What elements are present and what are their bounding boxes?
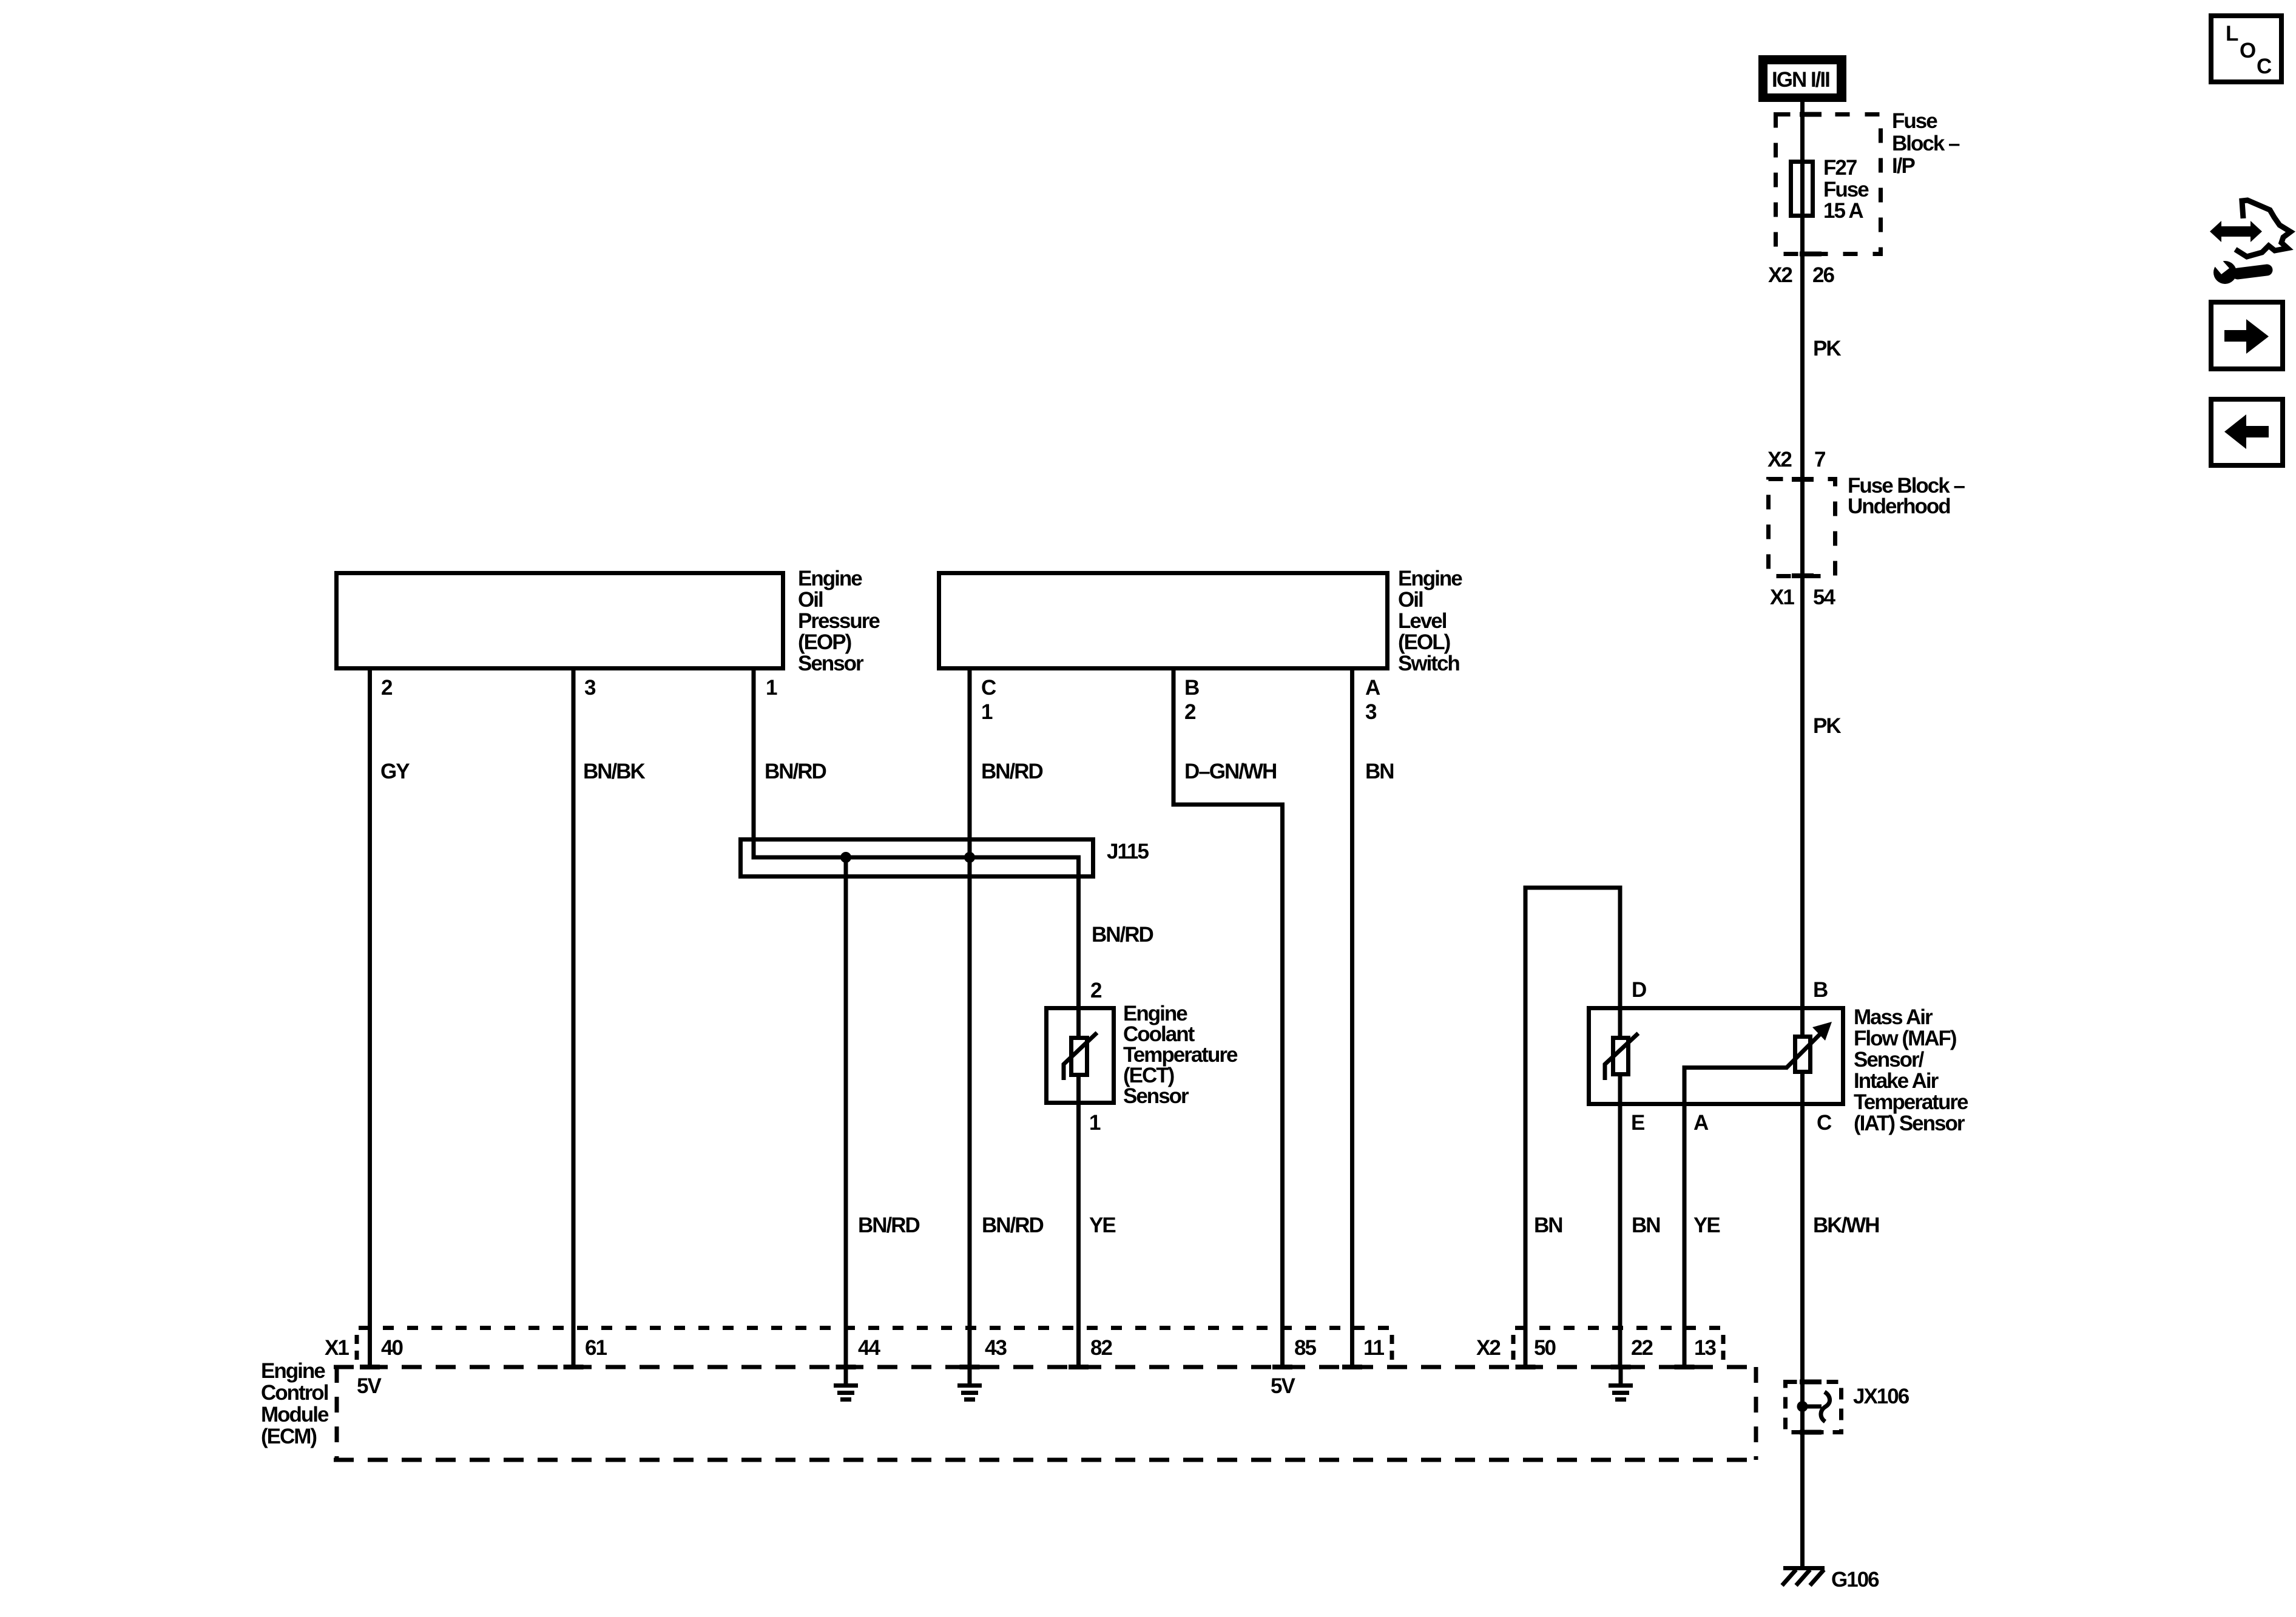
svg-text:54: 54 — [1813, 586, 1835, 609]
svg-text:(IAT) Sensor: (IAT) Sensor — [1854, 1112, 1965, 1135]
svg-text:50: 50 — [1534, 1336, 1556, 1360]
svg-text:(EOL): (EOL) — [1398, 630, 1450, 654]
svg-text:3: 3 — [584, 676, 596, 700]
svg-text:YE: YE — [1693, 1214, 1720, 1237]
svg-text:BK/WH: BK/WH — [1813, 1214, 1879, 1237]
label Engine Coolant Temperature (ECT) Sensor — [1123, 1002, 1238, 1108]
pin B 2 — [1184, 676, 1199, 724]
wire ECT pin 1 YE to ECM 82 — [1076, 1076, 1081, 1367]
variable resistor symbol MAF — [1786, 1022, 1832, 1072]
wire EOL pin C BN/RD to ECM 43 — [968, 669, 972, 1367]
svg-text:PK: PK — [1813, 714, 1841, 738]
splice JX106 dashed box — [1786, 1380, 1842, 1435]
svg-text:BN/RD: BN/RD — [765, 760, 826, 783]
svg-text:Intake Air: Intake Air — [1854, 1069, 1939, 1093]
svg-text:B: B — [1813, 978, 1828, 1002]
svg-text:Mass Air: Mass Air — [1854, 1005, 1933, 1029]
svg-text:X1: X1 — [325, 1336, 349, 1360]
wire EOL pin A BN to ECM 11 — [1350, 669, 1354, 1367]
pin C 1 — [981, 676, 996, 724]
node X2 7 — [1768, 448, 1825, 471]
svg-text:BN/RD: BN/RD — [981, 760, 1043, 783]
ECM connector X1 dotted row — [359, 1326, 1391, 1330]
svg-text:1: 1 — [766, 676, 777, 700]
svg-text:X1: X1 — [1770, 586, 1794, 609]
ground at ECM 44 — [834, 1369, 858, 1402]
svg-text:JX106: JX106 — [1853, 1385, 1909, 1408]
svg-text:J115: J115 — [1107, 840, 1149, 863]
svg-text:Temperature: Temperature — [1854, 1090, 1968, 1114]
svg-text:Underhood: Underhood — [1848, 495, 1950, 518]
svg-text:E: E — [1631, 1111, 1644, 1135]
label Fuse Block - Underhood — [1848, 474, 1965, 518]
svg-text:Engine: Engine — [1398, 567, 1462, 590]
svg-text:1: 1 — [1089, 1111, 1101, 1135]
svg-text:IGN I/II: IGN I/II — [1772, 68, 1829, 92]
svg-text:O: O — [2240, 39, 2255, 62]
svg-text:2: 2 — [381, 676, 393, 700]
svg-text:YE: YE — [1089, 1214, 1115, 1237]
node X1 54 — [1770, 586, 1835, 609]
svg-text:(EOP): (EOP) — [798, 630, 851, 654]
svg-text:Engine: Engine — [261, 1359, 325, 1383]
svg-text:44: 44 — [858, 1336, 880, 1360]
wire ECM 50 BN to MAF pin D — [1525, 888, 1620, 1367]
label Engine Oil Level (EOL) Switch — [1398, 567, 1462, 675]
label Engine Control Module (ECM) — [261, 1359, 329, 1448]
svg-text:L: L — [2226, 22, 2238, 46]
svg-text:BN/BK: BN/BK — [583, 760, 646, 783]
icon wrench with double arrow — [2210, 200, 2291, 284]
ECM pin terminal bars — [360, 1365, 1695, 1369]
ground at ECM 43 — [957, 1369, 982, 1402]
pin A 3 — [1365, 676, 1380, 724]
svg-text:BN/RD: BN/RD — [858, 1214, 920, 1237]
fuse block I/P dashed box — [1776, 112, 1881, 257]
svg-text:Sensor: Sensor — [798, 652, 864, 675]
svg-text:Sensor/: Sensor/ — [1854, 1048, 1925, 1072]
svg-text:Pressure: Pressure — [798, 609, 880, 633]
ground at ECM 22 — [1609, 1369, 1633, 1402]
splice clip symbol JX106 — [1803, 1405, 1822, 1409]
wire from J115 to ECM 44 BN/RD — [844, 857, 848, 1367]
svg-text:Level: Level — [1398, 609, 1447, 633]
splice J115 box — [741, 840, 1093, 877]
svg-text:BN/RD: BN/RD — [982, 1214, 1044, 1237]
svg-text:85: 85 — [1294, 1336, 1316, 1360]
svg-text:A: A — [1693, 1111, 1709, 1135]
svg-text:C: C — [2257, 55, 2272, 78]
svg-text:Oil: Oil — [1398, 588, 1423, 612]
wire EOP pin 3 BN/BK to ECM 61 — [572, 669, 576, 1367]
wire IAT pin E BN to ECM 22 — [1618, 1076, 1622, 1367]
svg-text:B: B — [1184, 676, 1199, 700]
label Engine Oil Pressure (EOP) Sensor — [798, 567, 880, 675]
svg-text:X2: X2 — [1768, 448, 1792, 471]
svg-text:26: 26 — [1812, 263, 1834, 287]
connector cap X2 left — [1511, 1335, 1516, 1360]
svg-text:C: C — [981, 676, 996, 700]
switch EOL box — [939, 573, 1388, 669]
svg-text:PK: PK — [1813, 337, 1841, 360]
svg-text:G106: G106 — [1831, 1568, 1879, 1592]
svg-text:Oil: Oil — [798, 588, 823, 612]
connector cap X1 right — [1390, 1335, 1394, 1360]
sensor MAF/IAT box — [1589, 1008, 1843, 1104]
sensor EOP box — [337, 573, 783, 669]
svg-text:11: 11 — [1363, 1336, 1385, 1360]
svg-text:A: A — [1365, 676, 1380, 700]
thermistor symbol IAT — [1605, 1033, 1638, 1080]
svg-text:2: 2 — [1090, 979, 1102, 1002]
svg-text:5V: 5V — [357, 1374, 382, 1398]
wire PK from IGN I/II to MAF pin B — [1800, 102, 1805, 1035]
svg-text:Switch: Switch — [1398, 652, 1459, 675]
svg-text:40: 40 — [381, 1336, 403, 1360]
junction dot on wire C — [964, 852, 975, 863]
ground G106 chassis symbol — [1782, 1566, 1825, 1585]
svg-text:2: 2 — [1184, 700, 1196, 724]
svg-text:Sensor: Sensor — [1123, 1084, 1189, 1108]
wire EOL pin B D-GN/WH to ECM 85 — [1173, 669, 1283, 1367]
label Mass Air Flow (MAF) Sensor / Intake Air Temperature (IAT) Sensor — [1854, 1005, 1968, 1135]
label F27 Fuse 15 A — [1823, 156, 1869, 223]
label Fuse Block - I/P — [1892, 109, 1960, 178]
wire EOP pin 2 GY to ECM 40 — [368, 669, 372, 1367]
ECM dashed box — [334, 1367, 1756, 1460]
svg-text:X2: X2 — [1476, 1336, 1501, 1360]
icon LOC box — [2211, 16, 2281, 82]
connector cap X1 left — [355, 1335, 359, 1360]
svg-text:BN: BN — [1534, 1214, 1562, 1237]
svg-text:D–GN/WH: D–GN/WH — [1184, 760, 1276, 783]
svg-text:61: 61 — [585, 1336, 607, 1360]
svg-text:Module: Module — [261, 1403, 329, 1426]
svg-text:7: 7 — [1814, 448, 1825, 471]
thermistor symbol ECT — [1064, 1033, 1097, 1080]
node X2 26 — [1768, 263, 1834, 287]
svg-text:Flow (MAF): Flow (MAF) — [1854, 1027, 1956, 1050]
svg-text:Fuse: Fuse — [1823, 178, 1869, 201]
svg-text:3: 3 — [1365, 700, 1377, 724]
ECM connector X2 dotted row — [1515, 1326, 1722, 1330]
wire MAF pin C BK/WH to G106 — [1800, 1072, 1805, 1566]
svg-text:C: C — [1817, 1111, 1832, 1135]
connector cap X2 right — [1721, 1335, 1726, 1360]
svg-text:D: D — [1632, 978, 1646, 1002]
svg-text:BN: BN — [1365, 760, 1394, 783]
junction dot JX106 — [1797, 1401, 1808, 1412]
svg-text:82: 82 — [1090, 1336, 1112, 1360]
svg-text:5V: 5V — [1271, 1374, 1295, 1398]
fuse F27 15A — [1791, 162, 1813, 216]
svg-text:I/P: I/P — [1892, 154, 1915, 178]
icon arrow left box — [2211, 399, 2283, 465]
wire EOP pin 1 BN/RD to splice J115 and on to ECT pin 2 — [754, 669, 1079, 1036]
svg-text:Control: Control — [261, 1381, 328, 1405]
svg-text:43: 43 — [985, 1336, 1007, 1360]
junction dot on wire 44 — [840, 852, 851, 863]
svg-text:22: 22 — [1631, 1336, 1653, 1360]
svg-text:Engine: Engine — [798, 567, 862, 590]
wire MAF pin A internal — [1684, 1068, 1787, 1368]
svg-text:13: 13 — [1694, 1336, 1716, 1360]
svg-text:X2: X2 — [1768, 263, 1792, 287]
power symbol IGN I/II — [1758, 55, 1846, 102]
svg-text:BN/RD: BN/RD — [1092, 923, 1153, 947]
svg-text:1: 1 — [981, 700, 993, 724]
svg-text:Block –: Block – — [1892, 132, 1960, 155]
svg-text:GY: GY — [380, 760, 410, 783]
svg-text:BN: BN — [1632, 1214, 1660, 1237]
icon arrow right box — [2211, 302, 2283, 369]
svg-text:(ECM): (ECM) — [261, 1425, 316, 1448]
svg-text:15 A: 15 A — [1823, 199, 1863, 223]
fuse block Underhood dashed box — [1769, 477, 1835, 578]
svg-text:Fuse: Fuse — [1892, 109, 1937, 133]
sensor ECT box — [1047, 1008, 1114, 1103]
svg-text:F27: F27 — [1823, 156, 1857, 180]
